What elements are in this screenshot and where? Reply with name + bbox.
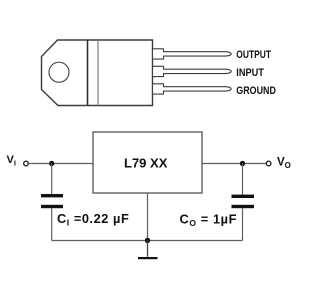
package mounting hole — [49, 62, 69, 82]
node VO label — [277, 157, 291, 171]
svg-text:CO = 1µF: CO = 1µF — [180, 212, 238, 229]
terminal VO (open circle) — [266, 161, 271, 166]
wire junction to CO top — [242, 164, 244, 195]
node VI label — [7, 154, 16, 168]
pin 3 label GROUND — [236, 85, 276, 97]
terminal VI (open circle) — [24, 161, 29, 166]
package U1 TO-220 body outline — [42, 40, 153, 106]
wire regulator output to VO terminal — [202, 163, 266, 165]
svg-text:CI =0.22 µF: CI =0.22 µF — [57, 211, 129, 228]
wire ground rail — [52, 240, 243, 242]
junction node input/CI — [49, 161, 54, 166]
capacitor CI value label — [57, 211, 129, 228]
svg-text:VO: VO — [277, 157, 291, 171]
wire CI bottom to ground rail — [51, 208, 53, 241]
capacitor CO plates — [232, 195, 255, 209]
svg-text:GROUND: GROUND — [236, 85, 276, 97]
pin 1 label OUTPUT — [236, 49, 271, 61]
pin 2 lead (INPUT) — [153, 66, 232, 76]
package mold line — [97, 40, 99, 106]
U1 value label L79 XX — [124, 155, 168, 170]
svg-text:OUTPUT: OUTPUT — [236, 49, 271, 61]
svg-text:L79 XX: L79 XX — [124, 155, 168, 170]
pin 3 lead (GROUND) — [153, 84, 232, 94]
junction node output/CO — [240, 161, 245, 166]
package tab-body boundary line — [87, 40, 89, 106]
junction node ground rail — [145, 238, 150, 243]
pin 1 lead (OUTPUT) — [153, 49, 232, 59]
wire CO bottom to ground rail — [242, 208, 244, 240]
capacitor CO value label — [180, 212, 238, 229]
svg-text:VI: VI — [7, 154, 16, 168]
wire regulator ground pin down — [147, 193, 149, 241]
op-amp U1 regulator box L79XX — [93, 132, 202, 193]
capacitor CI plates — [41, 194, 63, 208]
wire ground stub — [147, 241, 149, 257]
ground — [138, 257, 158, 259]
svg-text:INPUT: INPUT — [236, 67, 264, 79]
wire VI terminal to regulator input — [29, 163, 93, 165]
pin 2 label INPUT — [236, 67, 264, 79]
wire junction to CI top — [51, 164, 53, 195]
